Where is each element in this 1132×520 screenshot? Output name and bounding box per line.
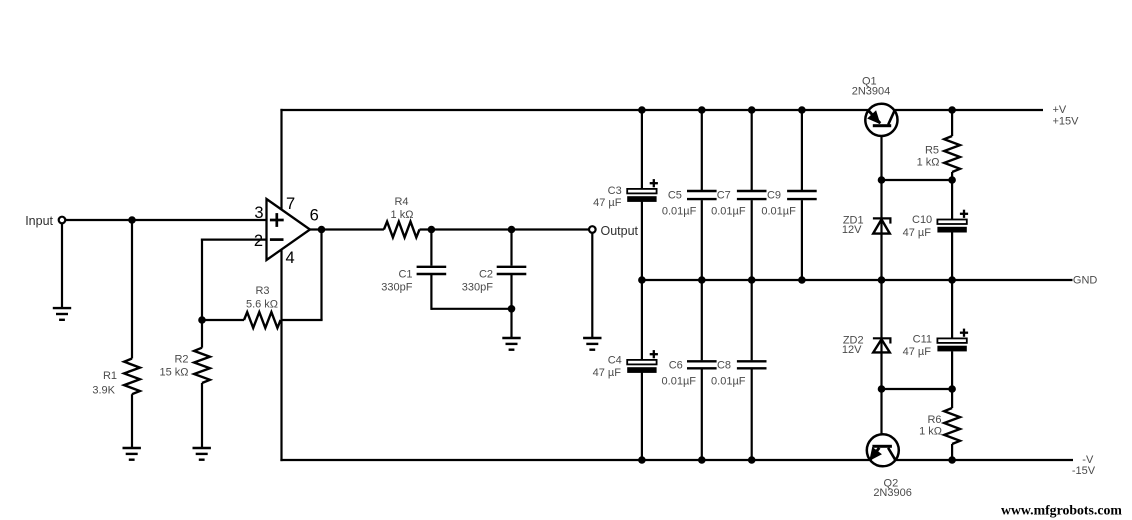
svg-text:C11: C11 — [913, 334, 932, 346]
svg-text:+15V: +15V — [1053, 115, 1080, 127]
capacitor C1 — [381, 267, 446, 294]
wire: C1 to C2 bottom — [431, 308, 511, 310]
svg-text:0.01µF: 0.01µF — [662, 206, 697, 218]
node: R4/C1 — [428, 226, 436, 234]
svg-text:47 µF: 47 µF — [593, 367, 622, 379]
svg-text:5.6 kΩ: 5.6 kΩ — [246, 299, 278, 311]
node: C9 at GND rail — [798, 276, 806, 284]
capacitor C8 — [711, 360, 766, 388]
node: ZD2/Q2 base — [878, 385, 886, 393]
wire: C3 top lead — [641, 110, 643, 189]
svg-text:C6: C6 — [669, 360, 683, 372]
node: C5/C6 at GND rail — [698, 276, 706, 284]
node: C6 at -V rail — [698, 456, 706, 464]
svg-text:2: 2 — [254, 232, 263, 250]
svg-text:R2: R2 — [174, 354, 188, 366]
wire: C6 top lead — [701, 280, 703, 360]
svg-text:1 kΩ: 1 kΩ — [917, 157, 940, 169]
wire: C1 top lead — [430, 230, 432, 266]
node: C11/R6 — [948, 385, 956, 393]
wire: +V top rail — [280, 109, 1043, 111]
node: R5 at +V rail — [948, 106, 956, 114]
svg-text:3: 3 — [254, 204, 263, 222]
node: C3/C4 at GND rail — [638, 276, 646, 284]
wire: inverting input down to R2/R3 node — [201, 239, 203, 321]
wire: R3 left lead — [202, 319, 244, 321]
wire: input to ground — [61, 220, 63, 308]
svg-text:C5: C5 — [668, 190, 682, 202]
resistor R1 — [92, 359, 140, 397]
resistor R4 — [384, 196, 420, 237]
wire: C11 bottom lead — [951, 351, 953, 389]
svg-text:330pF: 330pF — [381, 282, 412, 294]
svg-text:0.01µF: 0.01µF — [711, 376, 746, 388]
svg-text:7: 7 — [286, 195, 295, 213]
capacitor C4 — [593, 350, 658, 379]
wire: C6 bottom lead — [701, 369, 703, 460]
svg-text:C10: C10 — [912, 214, 932, 226]
ground (R2) — [193, 448, 211, 460]
svg-text:2N3904: 2N3904 — [852, 86, 891, 98]
wire: Q2 base up to zener node — [880, 389, 882, 444]
wire: R6 bottom lead — [951, 444, 953, 460]
node: R6 at -V rail — [948, 456, 956, 464]
svg-text:GND: GND — [1073, 275, 1098, 287]
node: op-amp output — [318, 226, 326, 234]
svg-text:4: 4 — [286, 249, 295, 267]
svg-text:www.mfgrobots.com: www.mfgrobots.com — [1001, 502, 1122, 517]
svg-text:0.01µF: 0.01µF — [711, 206, 746, 218]
capacitor C10 — [903, 210, 968, 239]
capacitor C9 — [761, 190, 816, 218]
node: C5 at +V rail — [698, 106, 706, 114]
svg-text:0.01µF: 0.01µF — [761, 206, 796, 218]
wire: C10 top lead — [951, 180, 953, 220]
wire: C4 bottom lead — [641, 373, 643, 461]
node: Q1 base/ZD1 — [878, 176, 886, 184]
resistor R3 — [244, 285, 281, 328]
wire: C9 bottom lead — [801, 200, 803, 280]
wire: C10 bottom lead — [951, 232, 953, 280]
output terminal — [589, 226, 596, 233]
wire: C7 top lead — [751, 110, 753, 190]
node: C8 at -V rail — [748, 456, 756, 464]
svg-text:C1: C1 — [398, 269, 412, 281]
ground (R1) — [123, 448, 141, 460]
wire: R5 bottom lead — [951, 172, 953, 180]
wire: C2 bottom lead — [510, 275, 512, 309]
wire: R1 top lead — [131, 220, 133, 359]
wire: op-amp pin 2 horizontal — [201, 239, 267, 241]
svg-text:C8: C8 — [717, 360, 731, 372]
transistor Q2 — [867, 434, 912, 499]
zener diode ZD1 — [842, 215, 892, 237]
svg-text:R4: R4 — [394, 196, 408, 208]
wire: C8 top lead — [751, 280, 753, 360]
capacitor C6 — [662, 360, 717, 388]
svg-text:1 kΩ: 1 kΩ — [391, 209, 414, 221]
node: C7 at +V rail — [748, 106, 756, 114]
node: R2/R3 inverting — [198, 316, 206, 324]
wire: ZD2 node to R6/C11 node — [882, 388, 953, 390]
resistor R2 — [159, 348, 209, 383]
wire: R1 bottom lead — [131, 394, 133, 448]
svg-text:12V: 12V — [842, 224, 862, 236]
resistor R6 — [919, 408, 960, 444]
wire: R2 top lead — [201, 320, 203, 348]
wire: op-amp pin 4 to -V rail — [280, 248, 282, 461]
svg-text:0.01µF: 0.01µF — [662, 376, 697, 388]
wire: C7 bottom lead — [751, 200, 753, 280]
svg-text:47 µF: 47 µF — [593, 197, 622, 209]
node: input/R1 — [128, 216, 136, 224]
resistor R5 — [917, 136, 960, 172]
wire: ZD1 through-wire — [880, 180, 882, 280]
transistor Q1 — [852, 76, 898, 137]
wire: C4 top lead — [641, 280, 643, 360]
wire: op-amp pin 7 to +V rail — [280, 109, 282, 212]
svg-text:+V: +V — [1053, 104, 1067, 116]
svg-text:R1: R1 — [103, 370, 117, 382]
wire: C11 top lead — [951, 280, 953, 338]
wire: feedback vertical from output node — [320, 230, 322, 321]
capacitor C11 — [903, 329, 968, 358]
node: C2 top — [508, 226, 516, 234]
wire: input to op-amp pin 3 — [62, 219, 267, 221]
svg-text:R3: R3 — [255, 285, 269, 297]
svg-text:C3: C3 — [608, 185, 622, 197]
node: R5/C10 — [948, 176, 956, 184]
ground (input) — [53, 308, 71, 320]
wire: C1 bottom lead — [430, 275, 432, 310]
wire: output terminal to ground — [591, 233, 593, 339]
svg-text:R6: R6 — [927, 414, 941, 426]
svg-text:C9: C9 — [767, 190, 781, 202]
wire: R3 right lead — [281, 319, 323, 321]
svg-text:47 µF: 47 µF — [903, 346, 932, 358]
wire: C3 bottom lead — [641, 202, 643, 281]
wire: Q1 base node to R5/C10 node — [882, 179, 953, 181]
wire: R2 bottom lead — [201, 383, 203, 448]
wire: C2 node to ground — [510, 309, 512, 338]
capacitor C7 — [711, 190, 766, 218]
node: C10/C11 at GND rail — [948, 276, 956, 284]
svg-text:-15V: -15V — [1072, 465, 1096, 477]
node: C7/C8 at GND rail — [748, 276, 756, 284]
zener diode ZD2 — [842, 335, 892, 357]
input terminal — [59, 217, 66, 224]
node: C9 at +V rail — [798, 106, 806, 114]
node: C4 at -V rail — [638, 456, 646, 464]
wire: C9 top lead — [801, 110, 803, 190]
wire: C5 top lead — [701, 110, 703, 190]
wire: -V bottom rail — [280, 459, 1073, 461]
ground (output) — [583, 338, 601, 350]
wire: GND rail — [641, 279, 1073, 281]
svg-text:2N3906: 2N3906 — [873, 487, 912, 499]
op-amp U1 — [254, 195, 319, 267]
svg-text:C2: C2 — [479, 269, 493, 281]
node: C1/C2 bottom — [508, 305, 516, 313]
wire: R5 top lead — [951, 110, 953, 136]
svg-text:Input: Input — [25, 214, 53, 228]
svg-text:C7: C7 — [717, 190, 731, 202]
svg-text:C4: C4 — [608, 355, 622, 367]
wire: C5 bottom lead — [701, 200, 703, 280]
capacitor C2 — [462, 267, 527, 294]
svg-text:3.9K: 3.9K — [92, 384, 115, 396]
wire: R4 to output terminal — [420, 228, 590, 230]
svg-text:R5: R5 — [925, 145, 939, 157]
wire: C2 top lead — [510, 230, 512, 266]
ground (C1/C2 node) — [502, 338, 520, 350]
node: C3 at +V rail — [638, 106, 646, 114]
node: ZD1/ZD2 at GND rail — [878, 276, 886, 284]
capacitor C5 — [662, 190, 717, 218]
svg-text:15 kΩ: 15 kΩ — [159, 367, 188, 379]
svg-text:330pF: 330pF — [462, 282, 493, 294]
wire: op-amp output to R4 — [309, 228, 384, 230]
svg-text:1 kΩ: 1 kΩ — [919, 426, 942, 438]
capacitor C3 — [593, 179, 658, 209]
svg-text:12V: 12V — [842, 344, 862, 356]
svg-text:Output: Output — [601, 224, 639, 238]
wire: ZD2 through-wire — [880, 280, 882, 389]
svg-text:47 µF: 47 µF — [903, 227, 932, 239]
wire: Q1 base down to zener node — [880, 126, 882, 180]
svg-text:6: 6 — [310, 206, 319, 224]
wire: C8 bottom lead — [751, 369, 753, 460]
wire: R6 top lead — [951, 389, 953, 408]
